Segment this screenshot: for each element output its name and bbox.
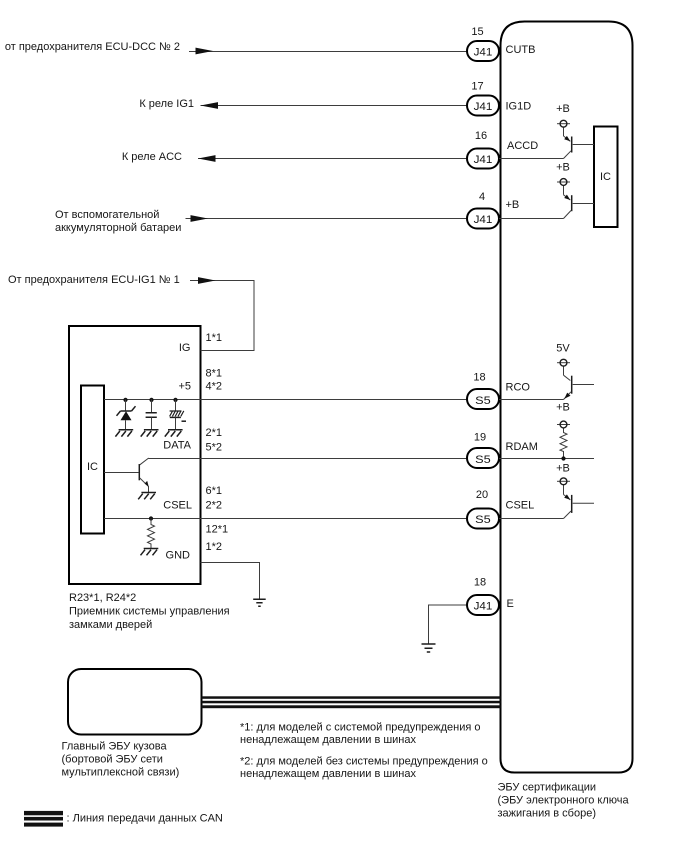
svg-text:J41: J41 — [474, 47, 493, 59]
connector J41 pin 16 ACCD — [467, 149, 499, 169]
connector S5 pin 20 CSEL — [467, 509, 499, 529]
svg-text:аккумуляторной батареи: аккумуляторной батареи — [55, 222, 181, 234]
wire from ECU-IG1 fuse to IG pin — [190, 281, 254, 351]
svg-text:IG: IG — [179, 342, 191, 354]
svg-text:6*1: 6*1 — [206, 485, 223, 497]
svg-text:18: 18 — [473, 372, 485, 384]
wire GND pin to ground — [201, 563, 260, 599]
wire RDAM row inside ECU — [499, 458, 594, 460]
footnote *1 — [240, 722, 481, 747]
svg-text:ЭБУ сертификации: ЭБУ сертификации — [498, 782, 597, 794]
legend CAN symbol — [24, 811, 63, 827]
connector J41 pin 4 +B — [467, 209, 499, 229]
svg-text:зажигания в сборе): зажигания в сборе) — [498, 808, 597, 820]
wire E pin to ground — [429, 605, 468, 644]
zener diode D1 — [117, 400, 136, 430]
ground earth for GND pin — [253, 599, 266, 606]
power terminal circle +B for Q3 — [557, 179, 570, 186]
transistor Q2 (ACCD) — [564, 127, 595, 159]
svg-text:CSEL: CSEL — [163, 500, 192, 512]
svg-text:+B: +B — [556, 162, 570, 174]
capacitor C1 — [146, 400, 157, 430]
node junction dot zener — [123, 398, 127, 402]
ground earth for E pin — [422, 644, 436, 652]
svg-text:+5: +5 — [178, 381, 191, 393]
svg-text:S5: S5 — [475, 514, 491, 526]
svg-text:4*2: 4*2 — [206, 381, 223, 393]
resistor R2 pull-up RDAM — [560, 428, 567, 459]
svg-text:: Линия передачи данных CAN: : Линия передачи данных CAN — [67, 813, 223, 825]
node junction dot RDAM — [561, 456, 565, 460]
wire IG1D row — [201, 105, 468, 107]
svg-text:J41: J41 — [474, 154, 493, 166]
svg-text:J41: J41 — [474, 214, 493, 226]
svg-text:IC: IC — [600, 171, 611, 183]
wire ACCD row — [198, 158, 467, 160]
label for ECU U2 — [498, 782, 630, 820]
svg-text:От предохранителя ECU-IG1 № 1: От предохранителя ECU-IG1 № 1 — [8, 274, 180, 286]
svg-text:E: E — [507, 598, 514, 610]
svg-text:От вспомогательной: От вспомогательной — [55, 209, 159, 221]
svg-text:12*1: 12*1 — [206, 524, 229, 536]
CAN bus lines — [202, 696, 501, 708]
transistor Q1 inside receiver — [104, 458, 149, 492]
wire CSEL row — [104, 518, 467, 520]
node junction dot electrolytic — [173, 398, 177, 402]
ground chassis for C2 — [165, 430, 183, 437]
svg-text:1*1: 1*1 — [206, 332, 223, 344]
text from auxiliary battery — [55, 209, 181, 234]
svg-text:(ЭБУ электронного ключа: (ЭБУ электронного ключа — [498, 795, 630, 807]
ground chassis for Q1 emitter — [138, 493, 156, 500]
wire CSEL to transistor Q5 — [499, 518, 564, 520]
svg-text:ненадлежащем давлении в шинах: ненадлежащем давлении в шинах — [240, 734, 417, 746]
svg-text:5*2: 5*2 — [206, 442, 223, 454]
svg-text:+B: +B — [506, 199, 520, 211]
wire +B row — [186, 218, 468, 220]
node junction dot resistor on CSEL — [149, 516, 153, 520]
wire DATA row — [149, 458, 468, 460]
arrow from auxiliary battery — [191, 215, 209, 222]
wire +B pin4 to transistor Q3 — [499, 218, 564, 220]
ground chassis for C1 — [141, 430, 159, 437]
svg-text:Приемник системы управления: Приемник системы управления — [69, 606, 230, 618]
svg-text:CUTB: CUTB — [506, 44, 536, 56]
wire RCO to transistor Q4 — [499, 399, 564, 401]
svg-text:IC: IC — [87, 461, 98, 473]
svg-text:16: 16 — [475, 130, 487, 142]
svg-text:5V: 5V — [556, 343, 570, 355]
arrow from ECU-DCC fuse — [196, 48, 214, 55]
svg-text:4: 4 — [479, 191, 485, 203]
arrow to relay ACC — [198, 155, 216, 162]
svg-text:RCO: RCO — [506, 382, 531, 394]
power terminal circle +B for Q5 — [557, 478, 570, 485]
connector J41 pin 17 IG1D — [467, 96, 499, 116]
transistor Q4 (RCO) — [564, 366, 595, 399]
power terminal circle +B for Q2 — [557, 120, 570, 127]
svg-text:ненадлежащем давлении в шинах: ненадлежащем давлении в шинах — [240, 768, 417, 780]
svg-text:19: 19 — [474, 432, 486, 444]
svg-text:RDAM: RDAM — [506, 441, 538, 453]
electrolytic capacitor C2 — [170, 400, 186, 430]
svg-text:GND: GND — [166, 550, 191, 562]
label for main body ECU — [62, 741, 180, 779]
svg-text:мультиплексной связи): мультиплексной связи) — [62, 767, 180, 779]
main body ECU box — [68, 669, 202, 735]
svg-text:S5: S5 — [475, 454, 491, 466]
svg-text:К реле ACC: К реле ACC — [122, 151, 182, 163]
svg-text:+B: +B — [556, 103, 570, 115]
svg-text:S5: S5 — [475, 395, 491, 407]
svg-text:ACCD: ACCD — [507, 140, 538, 152]
ground chassis for D1 — [115, 430, 133, 437]
svg-text:+B: +B — [556, 402, 570, 414]
svg-text:(бортовой ЭБУ сети: (бортовой ЭБУ сети — [62, 754, 163, 766]
connector S5 pin 18 RCO — [467, 389, 499, 409]
ground chassis for R1 — [141, 549, 159, 556]
wire +5 rail from IC to RCO — [104, 399, 467, 401]
svg-text:18: 18 — [474, 577, 486, 589]
svg-text:2*1: 2*1 — [206, 427, 223, 439]
svg-text:8*1: 8*1 — [206, 368, 223, 380]
wire ACCD to transistor Q2 — [499, 158, 564, 160]
svg-text:J41: J41 — [474, 101, 493, 113]
svg-text:+B: +B — [556, 463, 570, 475]
receiver box (door control receiver) — [69, 326, 201, 584]
resistor R1 pulldown — [148, 519, 155, 549]
IC U1 inside certification ECU — [594, 127, 618, 228]
svg-text:2*2: 2*2 — [206, 500, 223, 512]
svg-text:*1: для моделей с системой пре: *1: для моделей с системой предупреждени… — [240, 722, 481, 734]
svg-text:R23*1, R24*2: R23*1, R24*2 — [69, 592, 136, 604]
svg-text:15: 15 — [471, 26, 483, 38]
connector J41 pin 18 E — [467, 595, 499, 615]
transistor Q3 (+B) — [564, 185, 595, 218]
ECU U2 certification ECU body — [501, 22, 633, 773]
svg-text:17: 17 — [471, 81, 483, 93]
label R23*1, R24*2 receiver — [69, 592, 230, 631]
node junction dot capacitor — [149, 398, 153, 402]
svg-text:1*2: 1*2 — [206, 541, 223, 553]
svg-text:CSEL: CSEL — [506, 500, 535, 512]
svg-text:DATA: DATA — [163, 440, 191, 452]
transistor Q5 (CSEL) — [564, 485, 595, 519]
svg-text:IG1D: IG1D — [506, 101, 532, 113]
svg-text:от предохранителя ECU-DCC № 2: от предохранителя ECU-DCC № 2 — [5, 41, 180, 53]
wire CUTB row — [189, 51, 467, 53]
connector S5 pin 19 RDAM — [467, 448, 499, 468]
power terminal circle 5V for Q4 — [557, 359, 570, 366]
connector J41 pin 15 CUTB — [467, 41, 499, 61]
svg-text:J41: J41 — [474, 601, 493, 613]
svg-text:замками дверей: замками дверей — [69, 619, 152, 631]
arrow to relay IG1 — [201, 102, 219, 109]
footnote *2 — [240, 756, 488, 781]
IC U3 inside receiver — [81, 386, 104, 534]
svg-text:20: 20 — [476, 489, 488, 501]
svg-text:Главный ЭБУ кузова: Главный ЭБУ кузова — [62, 741, 168, 753]
svg-text:*2: для моделей без системы пр: *2: для моделей без системы предупрежден… — [240, 756, 488, 768]
svg-text:К реле IG1: К реле IG1 — [139, 98, 194, 110]
power terminal circle +B for R2 — [557, 421, 570, 428]
arrow from ECU-IG1 fuse — [198, 277, 216, 284]
